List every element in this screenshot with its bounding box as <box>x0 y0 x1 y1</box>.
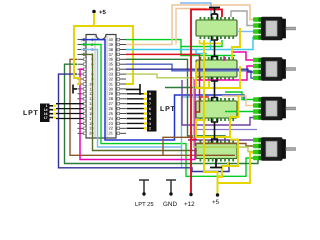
svg-text:24: 24 <box>109 116 114 121</box>
svg-text:LPT: LPT <box>23 110 39 117</box>
node +5 bottom terminal <box>216 193 219 196</box>
svg-text:8: 8 <box>149 97 151 101</box>
svg-text:39: 39 <box>109 42 114 47</box>
wire yellow loop right of U4 <box>204 95 239 137</box>
svg-text:21: 21 <box>109 131 114 136</box>
svg-text:6: 6 <box>149 107 151 111</box>
wire red branch U5 <box>191 139 197 141</box>
stepper motor M2 <box>253 57 296 81</box>
wire tan nested top <box>176 9 207 45</box>
driver IC U2 <box>196 17 237 39</box>
svg-text:7: 7 <box>149 102 151 106</box>
svg-text:LPT 25: LPT 25 <box>135 201 154 208</box>
wire cyan hook below U2 <box>196 49 207 53</box>
svg-text:25: 25 <box>109 111 114 116</box>
U1 pin numbers <box>89 37 114 136</box>
svg-text:17: 17 <box>44 116 48 120</box>
svg-text:3: 3 <box>149 122 151 126</box>
wire pin8 navy bus <box>59 74 230 171</box>
wire red branch U4 top <box>200 96 210 98</box>
svg-text:20: 20 <box>89 131 94 136</box>
wire cyan stub below U2 <box>210 40 212 49</box>
svg-text:34: 34 <box>109 67 114 72</box>
U1 left pins 1-20 <box>78 38 87 134</box>
svg-text:37: 37 <box>109 52 114 57</box>
U1 right pins 21-40 <box>116 38 126 134</box>
wire yellow under U2 <box>200 40 222 44</box>
svg-text:32: 32 <box>109 76 114 81</box>
svg-text:36: 36 <box>109 57 114 62</box>
wire +5 yellow rail <box>204 40 218 194</box>
wire +12 red rail <box>191 9 222 194</box>
svg-text:38: 38 <box>109 47 114 52</box>
wire yellow motor4 t3 branch <box>218 153 254 184</box>
svg-text:LPT: LPT <box>160 106 176 113</box>
wire magenta motor2 t1 <box>232 52 253 60</box>
svg-text:30: 30 <box>109 86 114 91</box>
wire yellow loop around U3 <box>196 62 240 88</box>
node +12 terminal <box>189 193 192 196</box>
wire +5 yellow left branch pin10 <box>74 13 94 84</box>
wire pin35 slate output motor2 t4 <box>126 64 253 78</box>
ground pin11 <box>73 85 77 94</box>
connector J1 LPT left <box>40 104 50 123</box>
wire green band above U3 <box>181 47 235 56</box>
driver IC U5 <box>196 140 237 162</box>
wire pin5 brown bus <box>70 59 235 155</box>
ground pin30 <box>126 84 140 95</box>
wire pin37 red output to U4 <box>126 54 200 112</box>
wire pin38 cyan output motor1 t4 <box>126 38 254 50</box>
svg-text:26: 26 <box>109 106 114 111</box>
svg-text:GND: GND <box>163 201 177 208</box>
svg-text:2: 2 <box>149 127 151 131</box>
wire pin33 yellowgreen output motor4 t3 <box>126 74 253 151</box>
wire pin34 navy output motor2 t3 <box>126 69 253 72</box>
U1 number column separators <box>94 36 96 138</box>
capacitor C3 <box>211 119 218 143</box>
svg-text:9: 9 <box>149 92 151 96</box>
wire sky above U2 <box>180 3 211 16</box>
ground above U2 <box>209 8 220 20</box>
svg-text:4: 4 <box>149 117 151 121</box>
stepper motor M4 <box>253 137 296 161</box>
svg-text:+5: +5 <box>212 199 220 206</box>
wire yellow loop U4 left <box>196 120 204 137</box>
stepper motor M3 <box>253 97 296 121</box>
svg-text:23: 23 <box>109 121 114 126</box>
wires U1 pins 29-22 to J2 <box>127 92 152 131</box>
svg-text:5: 5 <box>149 112 151 116</box>
wire magenta bus <box>80 66 253 160</box>
wire tan motor3 t2 <box>222 96 253 106</box>
wire purple motor4 t1 <box>188 139 253 141</box>
wire pin6 dark-green bus <box>65 64 262 163</box>
wire yellow loop right of U5 <box>218 140 239 178</box>
svg-text:27: 27 <box>109 101 114 106</box>
ground below U5 <box>210 159 222 168</box>
capacitor C2 <box>211 78 218 102</box>
connector J2 LPT right <box>147 91 157 132</box>
svg-text:+12: +12 <box>184 201 195 208</box>
wire pin2 green bus <box>81 45 253 177</box>
terminal GND <box>166 180 176 193</box>
wire green motor3 t3 <box>225 111 253 113</box>
wire magenta stub U3 top <box>223 56 225 61</box>
svg-text:33: 33 <box>109 72 114 77</box>
svg-text:35: 35 <box>109 62 114 67</box>
svg-text:31: 31 <box>109 81 114 86</box>
svg-text:28: 28 <box>109 96 114 101</box>
wire pin3 sky bus <box>81 50 203 148</box>
svg-text:29: 29 <box>109 91 114 96</box>
svg-text:22: 22 <box>109 126 114 131</box>
IC U1 DIP-40 body <box>86 35 116 139</box>
wires J1 to U1 pins 14-17 <box>56 104 84 119</box>
wire pin39 tan output motor1 t1 <box>126 5 253 45</box>
wire gray motor1 t2 <box>231 11 253 26</box>
wire dark-green branch <box>165 87 203 89</box>
wire yellow U5 bottom pin <box>227 162 229 166</box>
wire green motor3 t1 <box>225 92 253 100</box>
stepper motor M1 <box>253 17 296 41</box>
svg-text:+5: +5 <box>99 9 107 16</box>
driver IC U3 <box>196 57 237 80</box>
svg-text:40: 40 <box>109 37 114 42</box>
capacitor C1 <box>211 37 218 61</box>
wire pin1 blue bus <box>81 40 244 140</box>
wire sky vertical tail <box>181 147 183 168</box>
wire sky motor1 t3 <box>237 31 253 33</box>
wire pin36 dark-green output to U5 top <box>126 59 225 140</box>
wire yellow loop U2 right <box>232 28 240 59</box>
wire brown branch to U5 top <box>163 137 225 155</box>
wire +5 yellow right branch pin31 <box>94 26 133 84</box>
wire brown motor4 t2 <box>197 144 253 147</box>
driver IC U4 <box>196 98 237 121</box>
terminal LPT 25 <box>139 180 149 193</box>
wire pin40 green output <box>126 40 222 47</box>
wire lavender strand <box>196 129 257 131</box>
wire yellow U3 bottom pin <box>208 81 210 88</box>
wire pin4 olive bus <box>81 54 197 150</box>
node +5 top terminal <box>92 10 96 14</box>
wire purple motor3 t4 <box>182 80 253 125</box>
